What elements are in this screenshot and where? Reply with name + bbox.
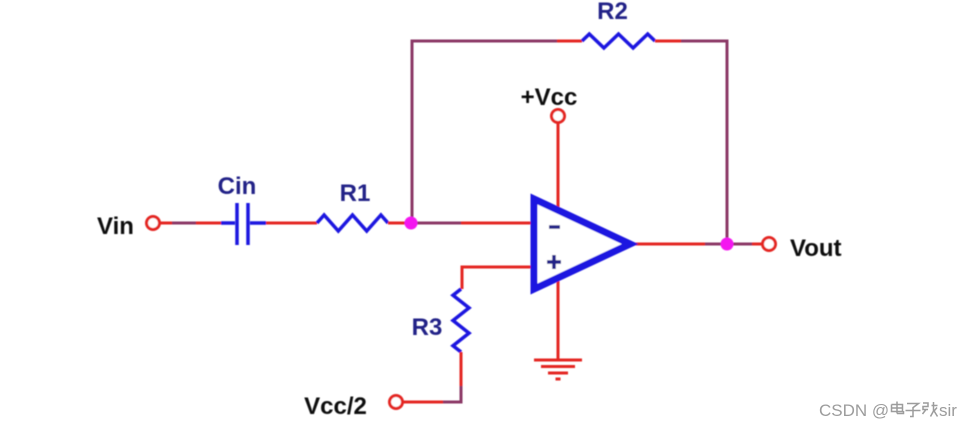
svg-text:Cin: Cin xyxy=(218,173,257,200)
svg-text:Vin: Vin xyxy=(97,213,134,240)
svg-text:R1: R1 xyxy=(340,180,371,207)
svg-text:R3: R3 xyxy=(412,314,443,341)
svg-text:+Vcc: +Vcc xyxy=(521,84,578,111)
svg-text:R2: R2 xyxy=(597,0,628,25)
svg-text:Vcc/2: Vcc/2 xyxy=(304,393,367,420)
svg-text:CSDN @: CSDN @ xyxy=(819,401,889,420)
svg-text:sir: sir xyxy=(939,401,957,420)
svg-text:Vout: Vout xyxy=(790,235,842,262)
